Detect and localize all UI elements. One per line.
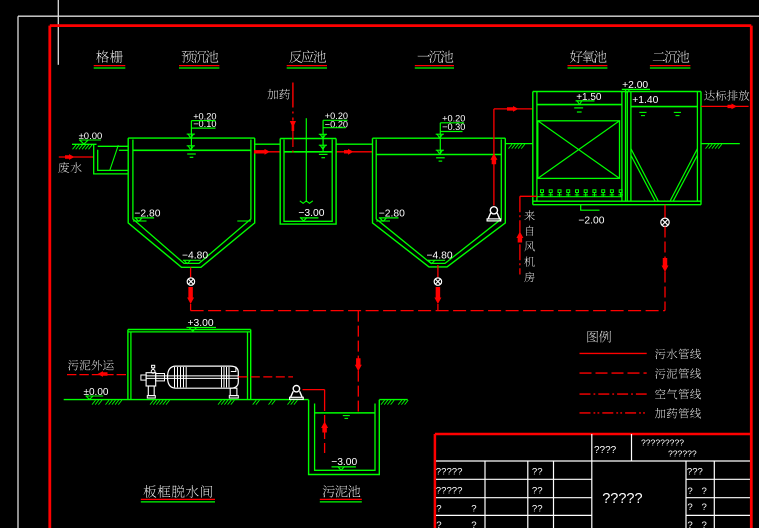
filter plates left group bbox=[174, 367, 176, 387]
ground right of sludge tank bbox=[379, 399, 407, 401]
legend title bbox=[587, 331, 598, 343]
reaction tank outer shell bbox=[280, 139, 336, 225]
air pipe into aerobic tank bbox=[520, 195, 537, 197]
secondary sed left wall bbox=[626, 92, 628, 202]
svg-text:?: ? bbox=[687, 486, 692, 497]
svg-text:?: ? bbox=[436, 520, 441, 528]
svg-text:−0.30: −0.30 bbox=[442, 122, 465, 132]
level marks reaction bbox=[322, 120, 324, 151]
drawing frame outer white bbox=[18, 15, 759, 17]
secondary sed right wall bbox=[696, 92, 698, 202]
reaction tank top edge bbox=[280, 138, 336, 140]
aerobic tank right wall bbox=[621, 92, 623, 202]
reaction tank inner shell bbox=[284, 140, 332, 222]
launder reaction to primary sed bbox=[336, 143, 372, 145]
sludge tank inner shell bbox=[315, 404, 375, 471]
pipe reaction to primary sed bbox=[336, 151, 372, 153]
label: from blower room (vertical) bbox=[524, 210, 534, 220]
pre-sedimentation tank top edge bbox=[128, 137, 255, 139]
title: bar screen bbox=[96, 50, 109, 62]
label: plate-frame dewatering room bbox=[144, 485, 157, 498]
secondary sed water line bbox=[631, 106, 698, 108]
label: dosing bbox=[267, 89, 278, 100]
svg-text:?????: ????? bbox=[436, 485, 463, 496]
label: sludge transport out bbox=[68, 360, 79, 370]
svg-text:+1.40: +1.40 bbox=[632, 95, 658, 106]
primary sed water line bbox=[376, 154, 501, 156]
pressure gauge bbox=[151, 370, 155, 374]
svg-text:−2.00: −2.00 bbox=[578, 215, 604, 226]
sludge outlet pre-sed bbox=[190, 267, 192, 277]
pipe pre-sed to reaction tank bbox=[255, 151, 281, 153]
sludge header line bbox=[191, 310, 665, 312]
svg-text:?????: ????? bbox=[602, 491, 642, 507]
primary sed tank inner shell bbox=[376, 139, 501, 263]
svg-text:??: ?? bbox=[532, 467, 543, 478]
mixer shaft bbox=[305, 118, 307, 201]
bar screen diagonal bbox=[110, 145, 119, 170]
press pedestal bbox=[148, 386, 154, 396]
legend air line bbox=[580, 393, 647, 395]
svg-text:?: ? bbox=[702, 502, 707, 513]
aerobic water line bbox=[537, 104, 622, 106]
filter press machine vessel bbox=[168, 366, 239, 388]
ground line right of secondary sed bbox=[701, 143, 740, 145]
level marks primary sed bbox=[439, 123, 441, 155]
svg-text:?: ? bbox=[687, 520, 692, 528]
discharge pipe to standard bbox=[701, 105, 749, 107]
sludge tank water line bbox=[315, 412, 375, 414]
aerobic and secondary sed top edge bbox=[533, 91, 701, 93]
wastewater inlet pipe bbox=[59, 156, 94, 158]
bar screen channel bbox=[94, 145, 129, 174]
title: reaction tank bbox=[289, 51, 302, 63]
svg-text:?: ? bbox=[436, 503, 441, 514]
riser pipe to aerobic tank bbox=[493, 109, 495, 206]
pre-sed water line bbox=[133, 149, 251, 151]
primary sed tank top edge bbox=[373, 137, 506, 139]
label: wastewater bbox=[58, 162, 69, 173]
title block grid bbox=[436, 460, 750, 462]
title block red border bbox=[435, 433, 751, 436]
press piston rod bbox=[146, 375, 238, 377]
dewatering room walls bbox=[127, 330, 129, 400]
ground line at dewatering room bbox=[64, 399, 309, 401]
diffuser manifold bbox=[537, 196, 622, 198]
diffusers bbox=[541, 193, 543, 197]
title: aerobic tank bbox=[570, 50, 583, 62]
sludge outlet secondary sed bbox=[664, 205, 666, 219]
sludge out pipe bbox=[67, 374, 128, 376]
pump to sludge tank pipe bbox=[303, 389, 325, 391]
air line from blower riser bbox=[519, 196, 521, 274]
aerobic tank left wall bbox=[532, 92, 534, 205]
pre-sedimentation tank inner shell bbox=[133, 140, 251, 264]
title: secondary sedimentation tank bbox=[653, 52, 665, 61]
primary sed tank outer shell bbox=[373, 138, 506, 267]
legend sludge line bbox=[580, 372, 647, 374]
label: standard discharge bbox=[704, 90, 714, 100]
filter plates right group bbox=[221, 367, 223, 387]
ground line primary sed to aerobic bbox=[505, 143, 533, 145]
hydraulic stand bbox=[146, 373, 156, 386]
pre-sed floor ledge bbox=[133, 220, 147, 222]
svg-text:??????: ?????? bbox=[668, 449, 697, 459]
secondary sed water marks bbox=[639, 111, 646, 113]
white reference line top-left bbox=[57, 0, 59, 65]
tank bottom lines bbox=[533, 200, 701, 202]
dosing line bbox=[292, 83, 294, 121]
legend sewage line bbox=[580, 352, 647, 354]
label: sludge tank bbox=[323, 485, 335, 497]
sludge transfer pump bbox=[293, 386, 299, 392]
pre-sedimentation tank outer shell bbox=[128, 138, 255, 267]
airlift pump primary sed bbox=[490, 207, 497, 214]
title: primary sedimentation tank bbox=[418, 55, 430, 56]
ground line at inlet bbox=[72, 143, 97, 145]
aerobic media box with X bbox=[538, 121, 620, 179]
reaction tank water line bbox=[284, 151, 332, 153]
svg-text:?: ? bbox=[471, 503, 476, 514]
svg-text:??: ?? bbox=[532, 503, 543, 514]
level marks pre-sed bbox=[190, 121, 192, 151]
svg-text:?????: ????? bbox=[436, 467, 463, 478]
launder pre-sed to reaction bbox=[255, 143, 281, 145]
svg-text:?: ? bbox=[687, 502, 692, 513]
secondary sed hopper V bbox=[631, 149, 658, 202]
svg-text:?: ? bbox=[702, 520, 707, 528]
svg-text:????: ???? bbox=[594, 445, 617, 456]
mixer propeller bbox=[300, 201, 313, 204]
press right leg bbox=[230, 388, 237, 395]
svg-text:?: ? bbox=[702, 486, 707, 497]
sludge feed line to press bbox=[238, 376, 293, 378]
vessel corner notch bbox=[231, 367, 236, 372]
svg-text:???: ??? bbox=[687, 467, 703, 478]
sludge tank outer shell bbox=[309, 400, 380, 475]
legend dosing line bbox=[580, 412, 647, 414]
svg-text:??: ?? bbox=[532, 485, 543, 496]
red drawing border bbox=[50, 24, 752, 27]
sludge outlet primary sed bbox=[437, 265, 439, 277]
elevation -2.00 aerobic bbox=[581, 205, 600, 211]
primary sed floor ledge bbox=[376, 220, 390, 222]
title: pre-sedimentation tank bbox=[182, 51, 194, 63]
svg-text:?: ? bbox=[471, 520, 476, 528]
svg-text:?????????: ????????? bbox=[641, 438, 684, 448]
sludge drop to sludge tank bbox=[357, 311, 359, 412]
